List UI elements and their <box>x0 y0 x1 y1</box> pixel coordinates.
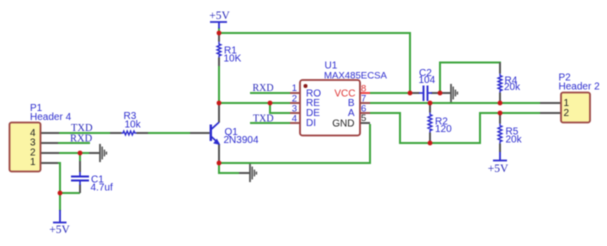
svg-text:4.7uf: 4.7uf <box>91 183 113 194</box>
svg-text:+5V: +5V <box>488 163 509 175</box>
svg-text:+5V: +5V <box>49 224 70 236</box>
svg-text:+5V: +5V <box>209 10 230 22</box>
svg-text:RXD: RXD <box>70 134 93 145</box>
svg-text:MAX485ECSA: MAX485ECSA <box>324 71 388 82</box>
svg-text:Header 2: Header 2 <box>559 82 601 93</box>
svg-text:GND: GND <box>332 118 354 129</box>
svg-text:5: 5 <box>361 113 366 124</box>
svg-text:TXD: TXD <box>71 123 93 134</box>
svg-text:10K: 10K <box>224 54 242 65</box>
svg-text:Header 4: Header 4 <box>30 112 72 123</box>
svg-text:VCC: VCC <box>334 88 355 99</box>
svg-text:DI: DI <box>306 118 316 129</box>
svg-text:TXD: TXD <box>253 114 274 125</box>
svg-text:20k: 20k <box>504 82 521 93</box>
svg-text:4: 4 <box>292 113 297 124</box>
svg-text:10k: 10k <box>125 120 142 131</box>
svg-text:120: 120 <box>435 124 452 135</box>
svg-text:RXD: RXD <box>253 83 274 94</box>
svg-text:2N3904: 2N3904 <box>224 135 259 146</box>
svg-text:2: 2 <box>564 108 570 119</box>
svg-text:104: 104 <box>419 75 436 86</box>
svg-text:8: 8 <box>361 84 366 95</box>
svg-text:20k: 20k <box>506 135 523 146</box>
svg-text:1: 1 <box>30 157 36 168</box>
